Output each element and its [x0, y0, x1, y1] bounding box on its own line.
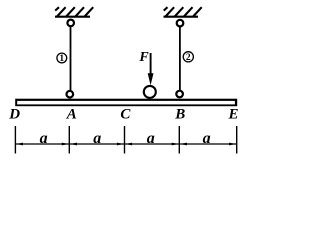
- svg-text:a: a: [147, 130, 155, 147]
- svg-text:C: C: [120, 107, 131, 123]
- dimension extension ticks: [15, 126, 236, 154]
- dimension line D-A with arrows: [16, 143, 69, 146]
- left fixed support hatching: [55, 7, 93, 16]
- label circled 1: [57, 53, 67, 64]
- svg-text:a: a: [203, 130, 211, 147]
- svg-text:F: F: [138, 50, 149, 65]
- pin circle at B: [176, 91, 183, 98]
- label circled 2: [183, 52, 193, 63]
- svg-text:E: E: [227, 107, 238, 123]
- left support ceiling line: [55, 16, 90, 18]
- roller circle at C: [144, 86, 156, 98]
- force F arrow: [148, 53, 154, 85]
- svg-text:B: B: [174, 107, 185, 123]
- dimension line A-C with arrows: [70, 143, 124, 146]
- right support pin circle: [177, 20, 184, 27]
- right support ceiling line: [164, 16, 199, 18]
- svg-text:D: D: [8, 107, 20, 123]
- rod 2 (wire from right pin to B): [179, 27, 181, 91]
- dimension line C-B with arrows: [125, 143, 179, 146]
- beam DE: [15, 99, 237, 107]
- left support pin circle: [67, 20, 74, 27]
- svg-text:1: 1: [59, 54, 64, 64]
- right fixed support hatching: [164, 7, 202, 16]
- pin circle at A: [67, 91, 74, 98]
- svg-text:A: A: [66, 107, 77, 123]
- dimension line B-E with arrows: [180, 143, 236, 146]
- svg-text:a: a: [93, 130, 101, 147]
- svg-text:2: 2: [186, 53, 191, 63]
- rod 1 (wire from left pin to A): [70, 26, 72, 91]
- svg-text:a: a: [40, 130, 48, 147]
